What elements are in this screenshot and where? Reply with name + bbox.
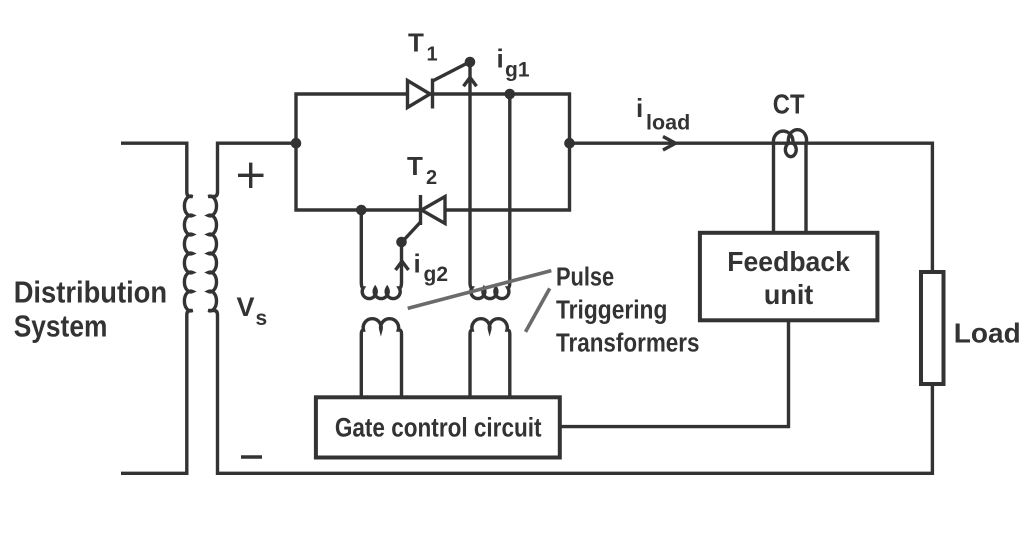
svg-text:T: T — [407, 151, 423, 181]
svg-text:CT: CT — [773, 89, 805, 120]
svg-text:i: i — [636, 93, 643, 123]
svg-text:T: T — [408, 28, 424, 58]
svg-text:i: i — [497, 44, 504, 74]
svg-text:i: i — [414, 249, 421, 279]
svg-text:Transformers: Transformers — [556, 330, 700, 358]
svg-text:g2: g2 — [424, 263, 449, 286]
svg-text:unit: unit — [764, 279, 813, 310]
svg-text:1: 1 — [427, 44, 438, 66]
svg-text:V: V — [237, 292, 255, 322]
svg-text:s: s — [256, 307, 268, 330]
svg-text:Feedback: Feedback — [727, 246, 850, 277]
svg-text:load: load — [646, 111, 690, 135]
svg-text:Distribution: Distribution — [14, 275, 167, 309]
svg-text:Gate control circuit: Gate control circuit — [335, 412, 542, 442]
svg-text:Pulse: Pulse — [556, 264, 614, 292]
svg-text:g1: g1 — [505, 59, 530, 82]
svg-text:Load: Load — [954, 317, 1021, 348]
svg-text:2: 2 — [426, 167, 437, 189]
svg-text:System: System — [14, 309, 108, 343]
svg-text:Triggering: Triggering — [556, 297, 667, 325]
